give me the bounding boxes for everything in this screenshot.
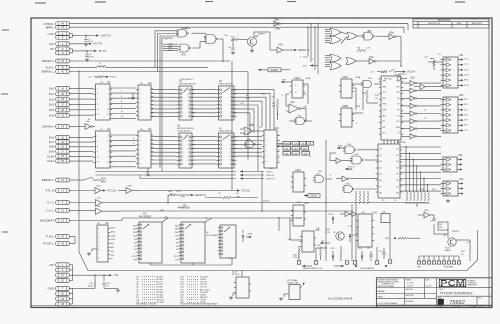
status label boxes <box>283 142 314 156</box>
text gate inputs <box>168 43 174 52</box>
text U2 inner <box>97 136 109 164</box>
inverter U2a chan <box>69 121 95 130</box>
flipflop U14A <box>290 77 305 98</box>
wire bracket +5V group <box>69 265 86 281</box>
wire -5v <box>320 241 330 245</box>
ic U4 <box>136 127 153 168</box>
wire U3-S1 row1 <box>151 89 177 116</box>
outline polygon <box>79 252 478 271</box>
wire Q1 collector <box>254 32 270 38</box>
nand U14b <box>294 116 312 125</box>
wire u19a2 out <box>426 86 443 88</box>
and gate U8a <box>330 29 341 37</box>
switch S7 <box>218 225 236 258</box>
diode CR14 <box>349 235 358 242</box>
text U7b <box>181 53 186 57</box>
nand gate U27b <box>342 184 378 193</box>
wire terminal feeds <box>419 255 459 257</box>
and gate U8d <box>330 55 341 63</box>
title block small text <box>378 279 433 306</box>
text dowl data <box>355 265 387 270</box>
buffer U12a <box>69 188 116 194</box>
resistor R12 <box>362 90 378 103</box>
wire outline vert <box>477 230 479 260</box>
text U6 freqs <box>111 228 116 261</box>
ground relay <box>279 294 289 301</box>
drawing number <box>438 297 482 306</box>
label box RESET <box>258 68 290 72</box>
resistor array R21 <box>355 191 369 204</box>
buffer array U18 <box>401 81 441 139</box>
wire S4 out right <box>234 137 262 157</box>
wire baudrat down <box>121 218 123 221</box>
transistor Q2 <box>333 232 344 240</box>
parts list column 2 <box>180 277 210 305</box>
switch S6 rec speed <box>179 222 205 263</box>
wire read cont <box>205 197 223 199</box>
text U6 inner <box>99 229 100 260</box>
wire fud <box>385 237 420 240</box>
wire gate1 out <box>192 33 207 37</box>
text terminal labels <box>417 266 454 269</box>
wire bracket GND group <box>69 289 86 305</box>
and gate U8e <box>330 62 341 70</box>
switch S4 <box>216 133 237 168</box>
wire U1-U3 row1 <box>110 88 136 119</box>
text +12V <box>466 242 471 247</box>
wire reset vertical <box>269 32 271 50</box>
text U12a <box>96 186 102 188</box>
and gate U16c <box>361 81 381 88</box>
text S6 freqs <box>174 225 180 261</box>
resistor R31 <box>223 196 258 198</box>
wire S1-S2 row1 <box>192 89 216 116</box>
registration marks <box>1 2 465 233</box>
wire gate3 out <box>219 39 224 62</box>
ic U27 box <box>234 277 251 298</box>
wire +12V to arrow <box>79 33 110 37</box>
buffer U11a <box>69 200 103 207</box>
inverter U25c <box>340 212 357 217</box>
buffer ic U23 <box>441 154 464 172</box>
text U11a <box>97 198 101 200</box>
wire bracket P IN/P OUT <box>69 237 75 244</box>
title block lines <box>376 278 492 308</box>
wire BRP bus <box>69 26 404 28</box>
nand gate U17b <box>350 154 378 164</box>
capacitor C1 <box>84 36 93 47</box>
wire ff links <box>352 84 363 113</box>
switch S1 <box>177 86 195 120</box>
text serial <box>263 201 271 203</box>
wire long mid 1 <box>120 210 352 212</box>
and gate U24a <box>313 176 332 183</box>
wire S3-S4 row2 <box>192 137 216 164</box>
ground U27 <box>229 293 236 300</box>
text U19 label <box>278 43 283 47</box>
wire gate input verticals <box>155 31 178 72</box>
text U10 inner <box>266 135 267 164</box>
wire uart2 right <box>400 147 441 191</box>
nand gate U8b <box>362 29 375 40</box>
ic U10 <box>262 126 280 168</box>
text U3 inner <box>140 89 141 119</box>
ic U6 <box>97 221 110 262</box>
nand gate U12c <box>337 144 378 154</box>
wire Dx bus vertical <box>78 70 80 252</box>
wire AUX L <box>69 66 97 68</box>
ic U26 box <box>381 212 390 223</box>
capacitor C13 <box>379 248 386 259</box>
wire Dx6-11 to U2 <box>69 137 93 161</box>
wire S2 out right <box>234 89 274 133</box>
flipflop U15A <box>339 76 354 98</box>
text U21 outs <box>464 59 469 87</box>
wire bracket +12V pair <box>69 34 79 38</box>
text L3N9 rows <box>266 171 276 180</box>
text U24a <box>316 174 321 176</box>
buffer ic U21 <box>441 54 465 88</box>
diode CR21 <box>361 251 364 261</box>
text S1 <box>179 79 196 85</box>
ground U6 <box>87 249 97 256</box>
wire U2-U4 row2 <box>110 135 136 167</box>
wire center links <box>286 84 308 121</box>
text U22 outs <box>464 99 468 132</box>
wire S6 top <box>162 218 212 222</box>
buffer U24d <box>336 176 378 182</box>
text S6 caption <box>178 204 190 210</box>
buffer U24c <box>330 158 352 164</box>
text bottom refs <box>330 248 370 250</box>
buffer U9b <box>376 30 402 39</box>
text U27 <box>232 272 240 277</box>
buffer U19a2 <box>414 84 425 90</box>
text U4 inner <box>140 136 141 166</box>
text relay coil <box>302 265 344 270</box>
wire misc right mid <box>330 153 336 161</box>
wire bottom long1 <box>231 61 233 190</box>
wire gate cluster stubs <box>325 30 330 43</box>
and gate U8c <box>330 36 341 44</box>
wire gnd join <box>86 286 120 293</box>
wire vert drops center <box>258 101 279 231</box>
wire AUX L cont <box>106 66 208 68</box>
resistor R50 <box>293 246 300 261</box>
buffer U19a reset <box>270 47 309 53</box>
text S5 freqs <box>132 225 138 261</box>
wire q3 links <box>434 224 470 244</box>
wire U4-S3 row2 <box>151 137 177 164</box>
capacitor C16 <box>102 275 110 287</box>
capacitor C4 <box>228 40 235 55</box>
or gate U10b <box>346 58 356 65</box>
wire relay links <box>316 247 327 260</box>
wire L3N9 rows <box>96 170 265 179</box>
resistor R52 <box>469 247 471 261</box>
wire gate input stubs <box>163 44 178 50</box>
text led u20 <box>378 75 407 81</box>
label box RUN BRK <box>99 178 106 183</box>
terminal row bottom right <box>417 256 460 264</box>
wire relay arrow <box>300 282 305 288</box>
pcm logo <box>439 278 477 288</box>
text xtc fwd <box>345 167 355 172</box>
wire down right <box>400 36 401 67</box>
text U17 inner <box>383 81 401 135</box>
resistor R10 <box>231 37 245 41</box>
title block frame <box>376 278 492 308</box>
wire RESET L <box>69 60 230 62</box>
scale row <box>438 305 483 308</box>
text S4 <box>219 128 233 132</box>
wire long mid 2 <box>122 217 302 219</box>
wire xtc cont <box>140 189 250 192</box>
ic U17 uart <box>379 72 404 140</box>
resistor R1 pullup <box>88 76 117 79</box>
wire +5v arrow <box>86 273 119 277</box>
label box SIP <box>438 222 448 230</box>
text U11b <box>97 206 101 208</box>
wire vert drops right <box>405 146 428 192</box>
flipflop U16a <box>291 169 306 192</box>
revisions table <box>413 19 489 28</box>
vertical bus pair mid <box>160 45 162 172</box>
nand gate U7b <box>178 44 191 52</box>
wire rev arrow <box>281 80 292 84</box>
text U18 <box>410 77 415 80</box>
or gate U10a <box>347 33 357 40</box>
connector pins J1 <box>40 22 69 306</box>
ic U20 uart2 <box>376 140 403 198</box>
note must be purchased <box>136 303 218 306</box>
switch S2 <box>216 86 237 120</box>
wire break switch <box>69 177 99 180</box>
wire read line <box>103 195 428 203</box>
text U10 pins <box>279 134 281 162</box>
buffer ic U24b <box>441 178 465 196</box>
diode CR16 <box>242 230 253 242</box>
resistor array R20 <box>406 192 429 201</box>
switch S5 kw speed <box>137 222 162 263</box>
wire -5V to arrow <box>79 49 106 53</box>
text S5 <box>139 213 151 219</box>
capacitor C2 <box>85 51 94 62</box>
wire INTRCL bus <box>69 23 408 25</box>
label box RESET2 <box>304 194 320 198</box>
nand gate U20b <box>176 26 189 37</box>
resistor R41 <box>317 245 322 260</box>
ic U2 <box>93 127 112 168</box>
wire status box stubs <box>277 143 283 146</box>
diode CR20 <box>332 251 335 261</box>
wire gate cluster stubs2 <box>325 56 330 67</box>
title text <box>439 289 474 296</box>
buffer U9c <box>356 55 401 64</box>
text U20 inner <box>380 148 399 195</box>
buffer U11b <box>69 208 120 215</box>
ground U3 <box>128 93 135 100</box>
nand gate U19c <box>204 35 218 44</box>
wire baudrate line <box>69 220 122 222</box>
text S7 <box>206 232 219 237</box>
optional relay box <box>287 279 300 300</box>
ground U24 <box>446 199 450 203</box>
resistor R11 sip <box>357 48 371 52</box>
wire right bus verticals <box>307 23 408 74</box>
wire bottom verticals <box>326 140 390 261</box>
wire bracket -5V pair <box>69 49 79 53</box>
switch S3 <box>177 133 195 168</box>
ground Q1 <box>250 46 254 53</box>
wire resistor row base <box>405 203 430 207</box>
diode CR13 <box>328 214 334 224</box>
and gate U5a <box>240 128 264 135</box>
text S2 <box>219 80 233 85</box>
wire U21 feed top <box>424 57 443 71</box>
text U5a <box>249 124 254 127</box>
terminal squares relay <box>297 260 391 264</box>
nand U5b <box>244 139 255 148</box>
wire sw bottoms <box>150 258 232 265</box>
buffer U25a <box>418 210 434 218</box>
parts list column 1 <box>136 277 165 305</box>
reference designators <box>88 28 466 256</box>
wire Dx0-5 to U1 <box>69 88 93 115</box>
wire gate2 out <box>193 42 207 49</box>
buffer ic U22 <box>441 94 465 133</box>
capacitor C12 <box>369 251 373 261</box>
text U1 inner <box>97 89 109 117</box>
ic U19b box <box>356 212 378 248</box>
capacitor C15 <box>88 275 96 288</box>
wire down from U13 <box>305 109 307 122</box>
note all diodes <box>328 297 353 301</box>
flipflop U15B <box>339 105 354 127</box>
resistor R9 <box>271 97 279 121</box>
text S3 <box>177 125 194 133</box>
wire bottom long2 <box>247 72 249 161</box>
wire vco circuit <box>370 70 415 74</box>
text F1Q2 <box>303 57 318 68</box>
transistor Q3 <box>445 238 456 252</box>
transistor Q1 <box>245 34 259 46</box>
buffer U12b <box>118 186 140 194</box>
flipflop U15b <box>300 229 320 252</box>
text U9a <box>275 27 280 31</box>
ic U1 <box>93 80 112 120</box>
inverter U9a <box>269 18 408 27</box>
wire or inputs <box>341 32 364 43</box>
inductor L1 <box>97 63 106 67</box>
ic U3 <box>136 81 153 120</box>
wire +5V to arrow <box>69 42 102 46</box>
wire bottom horizontals <box>290 218 302 240</box>
flipflop U16b <box>291 202 309 226</box>
wire uart link stubs <box>384 140 398 144</box>
opamp U13 <box>286 101 308 113</box>
wire u27 top <box>241 271 243 278</box>
wire SERIAL L <box>69 71 248 73</box>
resistor R30 <box>168 191 206 197</box>
resistor R53 <box>340 246 342 261</box>
capacitor C6 <box>146 168 150 176</box>
capacitor C14 <box>430 215 436 223</box>
